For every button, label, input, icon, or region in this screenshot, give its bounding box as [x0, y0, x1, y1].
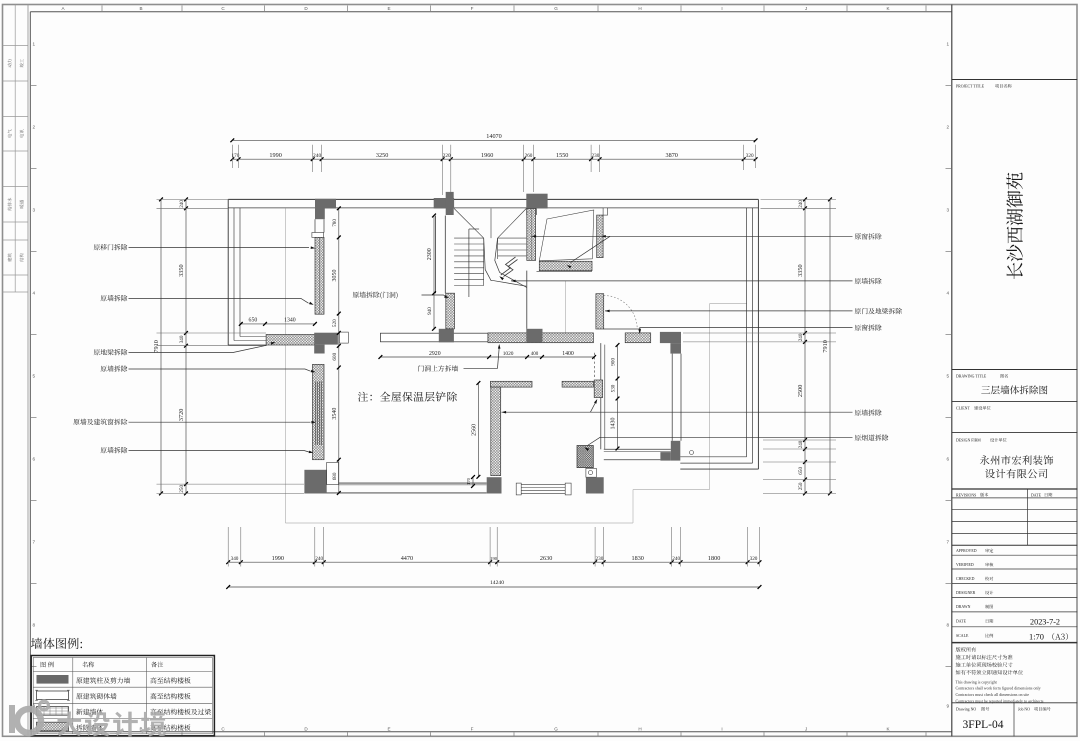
svg-text:3FPL-04: 3FPL-04 — [963, 719, 1004, 731]
svg-text:7: 7 — [947, 540, 950, 545]
svg-text:CLIENT: CLIENT — [956, 407, 970, 411]
svg-text:2023-7-2: 2023-7-2 — [1030, 617, 1060, 626]
interior dim D4 (2560) — [477, 383, 479, 477]
svg-text:240: 240 — [313, 153, 322, 159]
label: yuan men ji di liang chai chu (right 3) — [855, 308, 902, 314]
svg-text:PROJECT TITLE: PROJECT TITLE — [956, 85, 985, 89]
svg-text:F: F — [471, 726, 474, 731]
copyright notes — [956, 647, 976, 652]
svg-text:J: J — [805, 726, 807, 731]
interior dim D6 (650/1340) — [241, 323, 315, 325]
top overall dimension — [232, 139, 755, 141]
left overall dimension — [160, 199, 162, 493]
bottom-middle room top wall hatches — [490, 381, 532, 387]
svg-text:3: 3 — [33, 208, 36, 213]
label: men dong shang fang chai qiang — [418, 365, 458, 371]
L column at room corner — [660, 332, 681, 343]
svg-text:3050: 3050 — [332, 270, 338, 282]
svg-text:DESIGN FIRM: DESIGN FIRM — [956, 439, 981, 443]
svg-text:1020: 1020 — [503, 351, 514, 357]
svg-text:320: 320 — [746, 153, 754, 159]
inner drawing frame — [30, 11, 952, 13]
svg-text:600: 600 — [332, 352, 338, 360]
svg-text:4: 4 — [947, 291, 950, 296]
svg-text:1400: 1400 — [562, 351, 574, 357]
label: yuan yi men chai chu (left 1) — [94, 244, 128, 250]
svg-text:I: I — [721, 6, 722, 11]
svg-text:14240: 14240 — [490, 580, 504, 586]
svg-text:B: B — [139, 6, 142, 11]
svg-text:E: E — [387, 6, 390, 11]
svg-text:1430: 1430 — [611, 418, 617, 430]
right overall dimension — [829, 199, 831, 493]
svg-text:230: 230 — [596, 556, 604, 562]
svg-text:3350: 3350 — [178, 264, 185, 276]
svg-text:1830: 1830 — [632, 555, 644, 562]
label: yuan qiang chai chu (men dong) center — [353, 292, 398, 299]
svg-text:1800: 1800 — [708, 555, 720, 562]
columns on bottom wall — [487, 477, 502, 493]
svg-text:900: 900 — [611, 358, 617, 366]
svg-text:Contractors shall work form fi: Contractors shall work form figured dime… — [956, 686, 1041, 691]
middle-right room walls — [600, 343, 602, 449]
left window lines — [314, 382, 316, 446]
svg-text:E: E — [387, 726, 390, 731]
left dimension chain — [185, 199, 187, 493]
demolished window wall (upper) — [597, 215, 603, 258]
stair handrail — [468, 229, 470, 297]
title block horizontal rules — [952, 79, 1077, 81]
svg-text:2560: 2560 — [471, 424, 477, 436]
interior dim D1 (780/3050/520/600/3540/680) — [338, 208, 340, 493]
svg-text:240: 240 — [672, 556, 680, 562]
stair west wall — [435, 216, 437, 294]
svg-text:Contractors must check all dim: Contractors must check all dimensions on… — [956, 692, 1030, 697]
design firm name — [980, 455, 1053, 465]
stair cross column B — [526, 194, 547, 209]
svg-text:1: 1 — [947, 42, 950, 47]
stair direction arrow — [501, 257, 516, 275]
svg-text:3250: 3250 — [376, 152, 388, 159]
legend row: new wall — [37, 707, 69, 716]
landing quad outline — [539, 210, 594, 261]
label: yuan chuang chai chu (right 1) — [855, 233, 882, 239]
bottom overall dimension — [228, 586, 759, 588]
svg-text:H: H — [638, 6, 641, 11]
label: yuan qiang chai chu (left 4) — [101, 365, 128, 371]
demolished sill piece — [625, 333, 651, 343]
title block left edge — [951, 5, 953, 737]
svg-text:CHECKED: CHECKED — [956, 577, 975, 581]
bottom window — [516, 483, 521, 495]
svg-text:230: 230 — [592, 153, 600, 159]
svg-text:520: 520 — [332, 319, 338, 327]
svg-text:H: H — [638, 726, 641, 731]
svg-text:240: 240 — [798, 200, 804, 208]
svg-text:DESIGNER: DESIGNER — [956, 591, 976, 595]
svg-text:1960: 1960 — [481, 152, 493, 159]
door swing arc — [604, 296, 638, 330]
legend row: original column/shear wall — [37, 675, 69, 684]
demolished band below landing — [539, 261, 592, 270]
svg-text:1550: 1550 — [556, 152, 568, 159]
interior dim D2 (2300/940) — [433, 216, 435, 329]
demolished door wall (lower) — [596, 294, 604, 329]
column cluster at band west end — [314, 333, 338, 345]
svg-text:220: 220 — [443, 153, 451, 159]
label: yuan yan dao chai chu (right 6) — [855, 434, 889, 440]
svg-text:DATE: DATE — [956, 620, 967, 624]
bottom-left corner column — [304, 470, 326, 494]
demolished beam band B1 — [266, 335, 315, 346]
svg-text:3540: 3540 — [332, 408, 338, 420]
column on band — [439, 329, 454, 343]
L column bottom of middle-right room — [671, 441, 681, 461]
bottom dimension chain — [228, 561, 759, 563]
svg-text:7: 7 — [33, 540, 36, 545]
wall line below band — [526, 271, 528, 329]
terrace outline light lines — [284, 208, 286, 523]
svg-text:3720: 3720 — [178, 409, 185, 421]
svg-text:240: 240 — [179, 200, 185, 208]
demolished door opening in stair wall — [446, 293, 455, 329]
bottom wall (left part) — [339, 482, 487, 484]
svg-text:530: 530 — [611, 384, 617, 392]
svg-text:240: 240 — [798, 333, 804, 341]
legend table — [31, 656, 214, 736]
legend heading — [31, 638, 82, 649]
svg-text:G: G — [554, 6, 558, 11]
svg-text:DATE: DATE — [1031, 493, 1042, 497]
svg-text:680: 680 — [332, 472, 338, 480]
svg-text:3: 3 — [947, 208, 950, 213]
svg-text:Drawing NO: Drawing NO — [956, 708, 976, 712]
svg-text:SCALE: SCALE — [956, 634, 969, 638]
svg-text:6: 6 — [33, 457, 36, 462]
svg-text:170: 170 — [466, 477, 471, 485]
demolished wall east of stair — [527, 209, 536, 261]
svg-text:2: 2 — [33, 125, 36, 130]
white pier above column — [327, 462, 339, 484]
svg-text:APPROVED: APPROVED — [956, 549, 977, 553]
svg-text:1990: 1990 — [269, 152, 281, 159]
svg-text:250: 250 — [798, 482, 804, 490]
left signature strip — [14, 5, 16, 293]
white pier next to cluster — [339, 332, 348, 343]
svg-text:320: 320 — [750, 556, 758, 562]
svg-text:2920: 2920 — [429, 351, 441, 357]
svg-text:This drawing is copyright: This drawing is copyright — [956, 679, 998, 684]
demolished band over door openings (1020/400/1400) — [488, 333, 593, 343]
legend row: demolished wall — [37, 722, 69, 731]
right room wall notch — [603, 208, 607, 215]
project name vertical — [1006, 173, 1023, 279]
svg-text:Contractors must be reported i: Contractors must be reported immediately… — [956, 699, 1044, 704]
svg-text:5: 5 — [33, 374, 36, 379]
svg-text:F: F — [471, 6, 474, 11]
svg-text:940: 940 — [427, 307, 433, 315]
stair break lines — [484, 238, 527, 286]
small box w circle below flue — [586, 468, 596, 477]
svg-text:340: 340 — [179, 335, 185, 343]
svg-text:1:70: 1:70 — [1029, 633, 1044, 642]
svg-text:G: G — [554, 726, 558, 731]
retained wall band (2920) — [380, 333, 488, 342]
right dimension chain — [804, 199, 806, 493]
stair diagonals — [454, 209, 484, 239]
svg-text:6: 6 — [947, 457, 950, 462]
svg-text:9: 9 — [947, 704, 950, 709]
svg-text:REVISIONS: REVISIONS — [956, 493, 976, 497]
flue crosshatch — [577, 446, 593, 468]
interior dim D5 (170) — [472, 477, 474, 486]
svg-text:340: 340 — [231, 556, 239, 562]
window end notch + wall faces above — [314, 219, 316, 232]
svg-text:190: 190 — [490, 556, 498, 561]
left window wall full hatch — [313, 364, 325, 459]
top dimension chain — [232, 158, 755, 160]
svg-text:650: 650 — [249, 318, 258, 324]
svg-text:240: 240 — [315, 556, 323, 562]
stair treads — [454, 237, 484, 239]
svg-text:650: 650 — [798, 467, 804, 475]
svg-text:1990: 1990 — [272, 555, 284, 562]
svg-text:14070: 14070 — [486, 133, 501, 140]
svg-text:3870: 3870 — [666, 152, 678, 159]
svg-text:Job NO: Job NO — [1018, 708, 1030, 712]
label: yuan qiang chai chu (left 6) — [101, 447, 128, 453]
label: yuan di liang chai chu (left 3) — [94, 349, 128, 355]
interior dim D7 (2920/1020/400/1400) — [380, 356, 594, 358]
svg-text:DRAWING TITLE: DRAWING TITLE — [956, 375, 987, 379]
svg-text:DRAWN: DRAWN — [956, 605, 971, 609]
svg-text:2300: 2300 — [427, 248, 433, 260]
svg-text:8: 8 — [33, 623, 36, 628]
note: quan wu bao wen ceng chan chu — [358, 392, 457, 402]
svg-text:2630: 2630 — [540, 555, 552, 562]
watermark logo bottom-left — [12, 701, 166, 736]
svg-text:5: 5 — [947, 374, 950, 379]
demolished wall W1 (vertical, top-left room) — [315, 237, 324, 314]
svg-text:4470: 4470 — [401, 555, 413, 562]
bottom-middle room left wall — [491, 387, 501, 476]
svg-text:VERIFIED: VERIFIED — [956, 563, 974, 567]
column on hatched band — [526, 329, 542, 343]
svg-text:250: 250 — [179, 485, 185, 493]
label: yuan qiang chai chu (right 2) — [855, 278, 882, 284]
label: yuan chuang chai chu (right 4) — [855, 324, 882, 330]
svg-text:2500: 2500 — [797, 385, 804, 397]
column C1 top-left — [315, 199, 336, 209]
svg-text:240: 240 — [798, 440, 804, 448]
top wall outer/inner faces — [228, 198, 758, 200]
legend row: original masonry wall — [37, 691, 69, 700]
svg-text:780: 780 — [332, 219, 338, 227]
svg-text:8: 8 — [947, 623, 950, 628]
interior dim D3 (900/530/1430) — [617, 345, 619, 449]
svg-text:1: 1 — [33, 42, 36, 47]
right window / balcony nested lines — [746, 208, 748, 457]
svg-text:2: 2 — [947, 125, 950, 130]
stair cross column A — [434, 198, 454, 209]
label: yuan qiang chai chu (right 5) — [855, 409, 882, 415]
label: yuan qiang chai chu (left 2) — [101, 295, 128, 301]
label: yuan qiang ji jian zhu chuang chai chu (left 5) — [73, 419, 127, 425]
svg-text:J: J — [805, 6, 807, 11]
svg-text:400: 400 — [531, 352, 539, 357]
svg-text:7910: 7910 — [153, 340, 160, 352]
svg-text:3350: 3350 — [797, 264, 804, 276]
svg-text:I: I — [721, 726, 722, 731]
svg-text:1340: 1340 — [284, 318, 296, 324]
svg-text:4: 4 — [33, 291, 36, 296]
left window wall lines — [227, 199, 229, 345]
drawing title — [981, 385, 1047, 394]
svg-text:260: 260 — [525, 153, 533, 159]
